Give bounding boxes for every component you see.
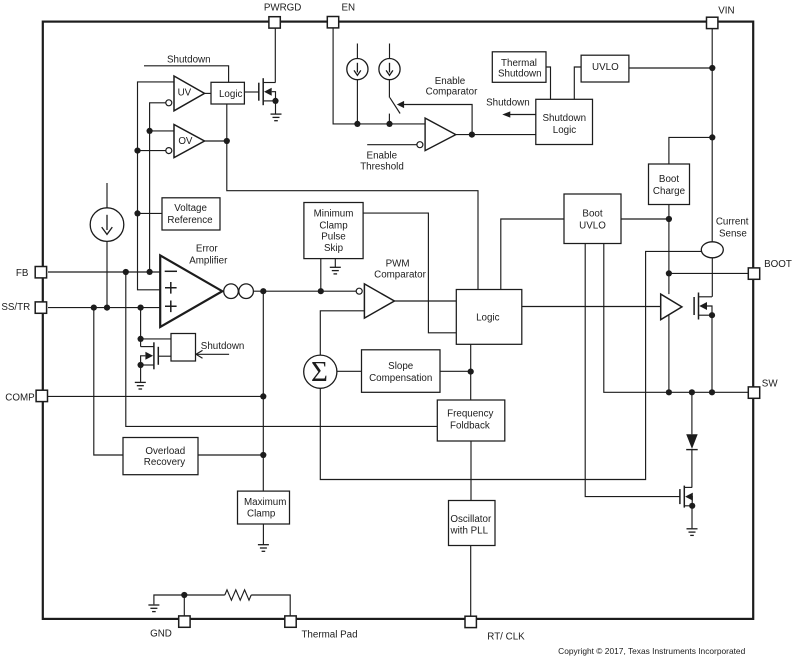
- svg-text:BOOT: BOOT: [764, 259, 792, 270]
- svg-text:Current: Current: [716, 217, 749, 228]
- svg-text:with PLL: with PLL: [450, 525, 489, 536]
- svg-text:Maximum: Maximum: [244, 497, 286, 508]
- svg-text:Thermal Pad: Thermal Pad: [301, 630, 357, 641]
- svg-text:Logic: Logic: [476, 313, 500, 324]
- svg-text:Frequency: Frequency: [447, 409, 493, 420]
- svg-text:VIN: VIN: [718, 5, 734, 16]
- svg-text:Shutdown: Shutdown: [498, 68, 542, 79]
- svg-text:GND: GND: [150, 629, 172, 640]
- svg-text:Error: Error: [196, 244, 219, 255]
- svg-text:Boot: Boot: [582, 208, 602, 219]
- svg-text:Overload: Overload: [145, 446, 185, 457]
- svg-text:Foldback: Foldback: [450, 420, 490, 431]
- svg-text:Threshold: Threshold: [360, 161, 404, 172]
- svg-text:PWRGD: PWRGD: [264, 3, 302, 14]
- svg-text:SS/TR: SS/TR: [1, 302, 30, 313]
- svg-text:SW: SW: [762, 378, 779, 389]
- svg-text:Thermal: Thermal: [501, 58, 537, 69]
- svg-text:Recovery: Recovery: [144, 457, 185, 468]
- svg-text:Shutdown: Shutdown: [543, 113, 587, 124]
- svg-text:Copyright © 2017, Texas Instru: Copyright © 2017, Texas Instruments Inco…: [558, 646, 745, 656]
- svg-text:Minimum: Minimum: [314, 208, 354, 219]
- svg-text:Comparator: Comparator: [374, 270, 426, 281]
- svg-text:Clamp: Clamp: [247, 508, 276, 519]
- svg-text:EN: EN: [341, 2, 355, 13]
- svg-text:PWM: PWM: [386, 258, 410, 269]
- svg-text:RT/ CLK: RT/ CLK: [487, 632, 525, 643]
- svg-text:FB: FB: [16, 268, 29, 279]
- svg-text:Voltage: Voltage: [174, 203, 207, 214]
- svg-text:Slope: Slope: [388, 361, 414, 372]
- svg-text:Oscillator: Oscillator: [450, 514, 492, 525]
- svg-text:UVLO: UVLO: [579, 220, 606, 231]
- svg-text:Logic: Logic: [553, 125, 577, 136]
- svg-text:Compensation: Compensation: [369, 373, 432, 384]
- svg-text:Amplifier: Amplifier: [189, 255, 228, 266]
- svg-text:Shutdown: Shutdown: [486, 98, 530, 109]
- svg-text:Shutdown: Shutdown: [167, 54, 211, 65]
- svg-text:Skip: Skip: [324, 243, 344, 254]
- svg-text:Reference: Reference: [167, 215, 213, 226]
- svg-text:COMP: COMP: [5, 392, 35, 403]
- svg-text:OV: OV: [178, 136, 193, 147]
- svg-text:Charge: Charge: [653, 186, 686, 197]
- svg-text:UVLO: UVLO: [592, 62, 619, 73]
- svg-text:Pulse: Pulse: [321, 231, 346, 242]
- svg-text:Logic: Logic: [219, 89, 243, 100]
- svg-text:Shutdown: Shutdown: [201, 341, 245, 352]
- svg-text:UV: UV: [178, 88, 192, 99]
- svg-text:Comparator: Comparator: [426, 87, 478, 98]
- svg-text:Clamp: Clamp: [319, 220, 348, 231]
- svg-text:Enable: Enable: [367, 150, 398, 161]
- svg-text:Σ: Σ: [311, 356, 328, 388]
- svg-text:Sense: Sense: [719, 228, 747, 239]
- svg-text:Enable: Enable: [435, 76, 466, 87]
- svg-text:Boot: Boot: [659, 174, 679, 185]
